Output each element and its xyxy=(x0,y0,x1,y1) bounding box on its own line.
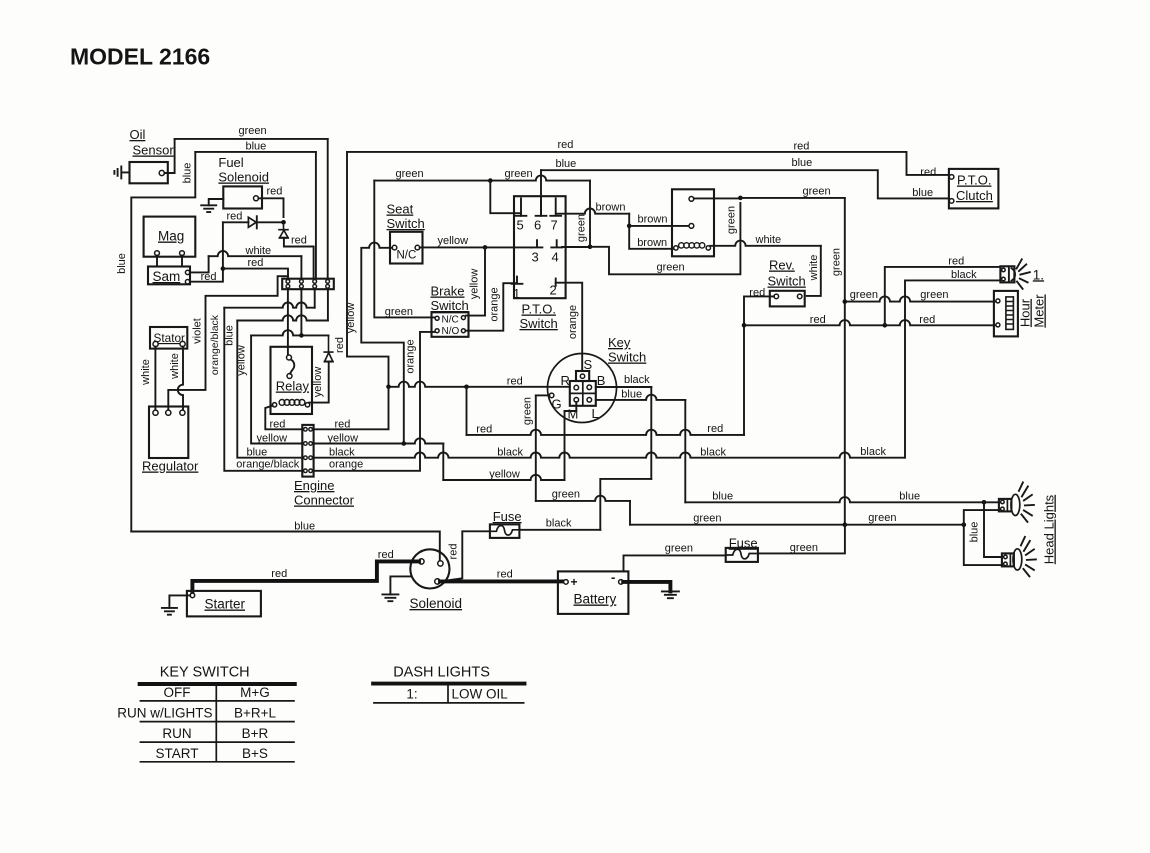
wire orange brake N/O right to PTO pin1 xyxy=(465,283,516,331)
wire M terminal drop to red bus and yellow riser xyxy=(564,411,566,480)
svg-text:B+R+L: B+R+L xyxy=(234,706,277,721)
svg-text:orange: orange xyxy=(567,305,579,339)
svg-text:Rev.: Rev. xyxy=(769,258,795,273)
Regulator pins xyxy=(153,410,158,415)
wire blue drop to headlight 2 xyxy=(984,502,1002,557)
svg-text:blue: blue xyxy=(556,158,577,170)
svg-text:brown: brown xyxy=(637,237,667,249)
wire orange/black: strip pin3 to engine connector xyxy=(314,289,316,308)
dash lamp bulb xyxy=(1009,268,1015,281)
svg-text:3: 3 xyxy=(532,250,539,265)
svg-text:black: black xyxy=(860,446,886,458)
svg-text:green: green xyxy=(868,512,896,524)
battery box xyxy=(558,571,629,614)
wire blue: strip pin4 to engine connector xyxy=(327,289,329,320)
svg-text:green: green xyxy=(726,206,738,234)
svg-text:green: green xyxy=(657,262,685,274)
svg-text:Switch: Switch xyxy=(387,216,425,231)
solenoid ground xyxy=(390,576,410,594)
starter pin xyxy=(190,593,195,598)
svg-text:red: red xyxy=(248,257,264,269)
svg-text:brown: brown xyxy=(596,202,626,214)
wire red vertical to key switch area xyxy=(347,152,389,387)
wire white stator left to regulator xyxy=(154,347,156,410)
wire green to hour meter (humps) xyxy=(845,296,998,301)
svg-text:Hour: Hour xyxy=(1018,298,1033,327)
interlock module coil xyxy=(679,243,684,248)
svg-text:green: green xyxy=(239,125,267,137)
interlock module top pin xyxy=(689,197,694,202)
PTO switch pin 2 xyxy=(555,279,557,286)
svg-text:7: 7 xyxy=(551,218,558,233)
svg-text:Seat: Seat xyxy=(387,202,414,217)
wire black thick battery to ground xyxy=(623,582,670,592)
svg-text:N/O: N/O xyxy=(442,326,460,337)
svg-text:N/C: N/C xyxy=(442,315,459,326)
wire module top pin to green junction xyxy=(694,197,741,199)
dash lamp pins xyxy=(1002,268,1006,272)
svg-text:6: 6 xyxy=(534,218,541,233)
junction yellow / brake drop xyxy=(483,245,488,250)
svg-text:white: white xyxy=(808,255,820,282)
svg-text:Switch: Switch xyxy=(431,298,469,313)
svg-text:red: red xyxy=(201,271,217,283)
svg-text:Fuel: Fuel xyxy=(218,155,243,170)
PTO switch pin 4 xyxy=(551,240,562,247)
dash lights table divider xyxy=(447,684,449,703)
starter box xyxy=(187,591,261,617)
wire red diode feed xyxy=(223,221,249,223)
svg-text:blue: blue xyxy=(224,325,236,346)
svg-text:RUN: RUN xyxy=(162,726,191,741)
relay box xyxy=(271,347,313,414)
wire yellow drop to brake N/C xyxy=(466,247,485,315)
wire brown PTO pin7 to module (hump over green) xyxy=(556,208,629,213)
fuse 1 element xyxy=(490,526,520,536)
svg-text:red: red xyxy=(270,418,286,430)
brake switch box xyxy=(432,312,469,337)
svg-text:KEY SWITCH: KEY SWITCH xyxy=(160,665,250,681)
wire green mid bus xyxy=(374,175,590,180)
connector strip pin 4 xyxy=(326,280,330,284)
svg-text:Brake: Brake xyxy=(431,284,465,299)
key switch table rules xyxy=(140,682,295,686)
headlight 1 connector divider xyxy=(1006,499,1008,512)
wire violet connector pin1 to regulator xyxy=(168,276,288,410)
svg-text:red: red xyxy=(334,337,346,353)
PTO switch box xyxy=(514,196,566,298)
svg-text:red: red xyxy=(476,423,492,435)
svg-text:black: black xyxy=(624,374,650,386)
PTO switch pin 1 xyxy=(512,277,523,284)
dash lamp rays xyxy=(1017,259,1030,289)
svg-text:black: black xyxy=(951,269,977,281)
fuel solenoid pin xyxy=(254,196,259,201)
headlight 2 connector divider xyxy=(1009,553,1011,566)
svg-text:Switch: Switch xyxy=(520,316,558,331)
junction green module node xyxy=(738,196,743,201)
wire red diode D2 to connector pin3 xyxy=(284,238,314,279)
wire red solenoid to fuse xyxy=(442,531,490,581)
svg-text:5: 5 xyxy=(517,218,524,233)
PTO switch pin 6 xyxy=(536,201,547,216)
svg-text:yellow: yellow xyxy=(438,235,469,247)
engine connector pin pair 2 xyxy=(304,442,308,446)
svg-text:1:: 1: xyxy=(406,687,417,702)
junction blue headlight node xyxy=(982,500,987,505)
wire black bus engine connector to lamp riser (humps) xyxy=(314,452,905,457)
relay contacts xyxy=(287,355,292,360)
svg-text:Mag: Mag xyxy=(158,229,184,244)
wire yellow riser from engine connector xyxy=(404,438,444,443)
svg-text:OFF: OFF xyxy=(164,685,191,700)
svg-text:S: S xyxy=(584,357,593,372)
fuel solenoid ground xyxy=(209,199,224,205)
svg-text:yellow: yellow xyxy=(312,367,324,398)
wire yellow segment to M drop (hump over green) xyxy=(443,475,564,480)
svg-text:B+S: B+S xyxy=(242,746,268,761)
wire green battery to fuse 2 xyxy=(624,555,726,571)
headlight 2 rays xyxy=(1021,537,1036,577)
headlight 2 connector xyxy=(1002,553,1014,566)
svg-text:blue: blue xyxy=(247,446,268,458)
oil sensor box xyxy=(130,162,168,183)
svg-text:orange: orange xyxy=(488,287,500,321)
Stator pins xyxy=(153,341,158,346)
svg-text:+: + xyxy=(571,575,578,589)
svg-text:Switch: Switch xyxy=(608,350,646,365)
svg-text:yellow: yellow xyxy=(236,345,248,376)
solenoid pins xyxy=(419,559,424,564)
svg-text:red: red xyxy=(558,139,574,151)
connector strip box xyxy=(282,279,334,290)
svg-text:MODEL 2166: MODEL 2166 xyxy=(70,44,210,70)
wire white module to rev switch (hump over green) xyxy=(711,241,821,246)
svg-text:1.: 1. xyxy=(1033,267,1044,282)
svg-text:red: red xyxy=(507,375,523,387)
fuse 2 element xyxy=(726,549,757,559)
wire green G to headlight bus xyxy=(536,496,630,501)
wire strip pin1 to relay contact xyxy=(287,289,289,355)
svg-text:red: red xyxy=(291,235,307,247)
hour meter box xyxy=(994,291,1018,337)
PTO clutch pins xyxy=(949,175,954,180)
key switch G pin xyxy=(549,393,554,398)
hour meter register xyxy=(1006,297,1014,330)
Mag pins xyxy=(155,251,160,256)
wire blue top (to connector pin3) xyxy=(195,151,316,153)
svg-text:blue: blue xyxy=(712,491,733,503)
svg-text:brown: brown xyxy=(638,213,668,225)
brake switch pins xyxy=(435,316,439,320)
PTO clutch box xyxy=(949,169,999,209)
junction red riser xyxy=(221,266,226,271)
svg-text:Head Lights: Head Lights xyxy=(1042,494,1057,564)
engine connector pin pair 3 xyxy=(304,456,308,460)
wire brown branch to module pin xyxy=(629,225,689,227)
Sam box xyxy=(148,267,190,285)
wire red to key switch R (humps over yellow+orange) xyxy=(389,382,570,387)
wire green PTO pin4 to junction xyxy=(562,246,590,248)
wire blue top bus xyxy=(541,170,949,198)
key switch circle xyxy=(548,354,617,423)
svg-text:P.T.O.: P.T.O. xyxy=(522,302,556,317)
svg-text:green: green xyxy=(505,168,533,180)
svg-text:blue: blue xyxy=(246,141,267,153)
wire blue left drop xyxy=(131,152,195,532)
svg-text:green: green xyxy=(385,306,413,318)
key switch S terminal box xyxy=(576,371,589,381)
Mag box xyxy=(144,217,196,257)
starter ground xyxy=(169,595,190,608)
svg-text:yellow: yellow xyxy=(489,468,520,480)
wire red to hour meter (humps over greens) xyxy=(744,320,885,325)
key switch table divider xyxy=(215,684,217,762)
interlock module box xyxy=(672,189,714,256)
svg-text:red: red xyxy=(448,544,460,560)
oil sensor ground terminal xyxy=(114,166,129,178)
fuse 2 box xyxy=(726,548,758,562)
svg-text:Switch: Switch xyxy=(768,274,806,289)
svg-text:green: green xyxy=(920,289,948,301)
junction red diode node xyxy=(281,220,286,225)
seat switch pins xyxy=(392,245,397,250)
svg-text:black: black xyxy=(700,447,726,459)
svg-text:LOW OIL: LOW OIL xyxy=(452,687,509,702)
svg-text:Fuse: Fuse xyxy=(493,509,522,524)
wire green bus to headlights xyxy=(630,524,964,526)
dash lamp 1 box xyxy=(1000,266,1014,282)
wire black dash lamp to bottom black bus xyxy=(905,280,1000,457)
svg-text:green: green xyxy=(693,512,721,524)
svg-text:2: 2 xyxy=(550,283,557,298)
oil sensor pin xyxy=(159,170,164,175)
svg-text:Sam: Sam xyxy=(153,269,181,284)
wire oil sensor to green bus xyxy=(164,139,174,173)
svg-text:4: 4 xyxy=(552,250,559,265)
wire yellow drop to engine connector xyxy=(251,335,302,443)
svg-text:yellow: yellow xyxy=(469,269,481,300)
junction green bus / pto pin5 drop xyxy=(488,178,493,183)
svg-text:N/C: N/C xyxy=(397,250,417,262)
svg-text:green: green xyxy=(552,488,580,500)
PTO switch pin 3 xyxy=(532,240,543,247)
connector strip pin 3 xyxy=(313,280,317,284)
svg-text:violet: violet xyxy=(191,318,203,344)
headlight 2 lens xyxy=(1013,549,1022,570)
wire blue bus to headlights xyxy=(685,497,984,502)
junction green pin4 node xyxy=(588,245,593,250)
PTO switch pin 5 xyxy=(516,198,527,215)
svg-text:white: white xyxy=(140,359,152,386)
svg-text:1: 1 xyxy=(513,286,520,301)
engine connector pin pair 4 xyxy=(304,469,308,473)
junction rev red / hour meter red xyxy=(742,323,747,328)
headlight 1 connector xyxy=(999,499,1012,512)
svg-text:green: green xyxy=(522,397,534,425)
wire red top bus xyxy=(347,152,949,175)
wire green bus to PTO pin5 xyxy=(490,181,521,216)
relay diode D3 xyxy=(323,335,333,361)
svg-text:green: green xyxy=(665,543,693,555)
relay coil xyxy=(279,400,285,406)
svg-text:blue: blue xyxy=(912,187,933,199)
wire red lower bus (humps) xyxy=(467,430,745,435)
wire white Sam to connector pin2 xyxy=(190,256,209,272)
fuse 1 box xyxy=(490,524,520,538)
junction strip pin2 drop on yellow bus xyxy=(299,333,304,338)
rev switch box xyxy=(770,291,805,307)
wire blue bottom bus to solenoid xyxy=(131,532,440,561)
junction green hour meter branch xyxy=(843,299,848,304)
svg-text:DASH LIGHTS: DASH LIGHTS xyxy=(393,665,490,681)
svg-text:green: green xyxy=(396,168,424,180)
wire yellow seat switch to PTO pin3 xyxy=(420,246,532,248)
connector strip pin 1 xyxy=(286,280,290,284)
svg-text:R: R xyxy=(561,373,570,388)
fuel solenoid box xyxy=(223,186,262,208)
wire green module to right vertical xyxy=(740,197,844,199)
svg-text:black: black xyxy=(329,447,355,459)
svg-text:orange: orange xyxy=(404,339,416,373)
wire red relay coil to engine connector xyxy=(265,406,302,430)
svg-text:blue: blue xyxy=(899,491,920,503)
svg-text:Meter: Meter xyxy=(1032,294,1047,328)
seat switch box xyxy=(390,232,423,264)
wire green fuse 2 to green bus riser xyxy=(758,525,845,554)
PTO switch pin 7 xyxy=(550,198,561,215)
wire black fuse to key switch B drop xyxy=(519,529,600,531)
svg-text:green: green xyxy=(850,289,878,301)
svg-text:blue: blue xyxy=(792,157,813,169)
wire white stator right to regulator (hump over violet) xyxy=(178,347,183,410)
battery ground xyxy=(662,591,679,598)
junction green bus nodes xyxy=(843,522,848,527)
wire blue key switch L to headlights xyxy=(596,395,686,400)
wire red thick starter to solenoid xyxy=(192,561,419,595)
svg-text:yellow: yellow xyxy=(345,303,357,334)
svg-text:green: green xyxy=(830,248,842,276)
svg-text:yellow: yellow xyxy=(328,432,359,444)
wire yellow bus line to relay diode xyxy=(251,330,328,335)
hour meter pins xyxy=(996,299,1000,303)
wire blue to headlight 1 xyxy=(984,501,999,503)
svg-text:Solenoid: Solenoid xyxy=(410,596,463,611)
wire strip pin2 drop xyxy=(300,289,302,335)
wire red rev switch to red bus vertical xyxy=(744,296,774,435)
wire green branch to headlight 1 xyxy=(964,510,999,525)
wire orange brake N/O left to engine connector orange xyxy=(314,332,436,471)
svg-text:red: red xyxy=(919,314,935,326)
wire green to brake switch N/C xyxy=(374,181,434,318)
headlight 1 rays xyxy=(1019,482,1034,522)
svg-text:yellow: yellow xyxy=(257,432,288,444)
wire red engine connector row1 riser xyxy=(314,387,389,430)
diode D1 xyxy=(248,217,256,227)
Stator box xyxy=(150,327,187,349)
wire red to dash lamp 1 xyxy=(885,267,1001,325)
svg-text:red: red xyxy=(267,186,283,198)
wire red Sam junction to connector pin1 xyxy=(223,269,288,279)
svg-text:black: black xyxy=(497,446,523,458)
wire red fuel solenoid to diode junction xyxy=(258,198,283,217)
key switch block pins xyxy=(574,385,579,390)
wire green right vertical (hour meter / headlights feed) xyxy=(844,198,846,525)
wire red drop to lower red bus xyxy=(466,387,468,435)
wire yellow engine connector row2 xyxy=(314,443,404,445)
engine connector pin pair 1 xyxy=(304,428,308,432)
wire red thick solenoid to battery xyxy=(440,579,564,583)
svg-text:M+G: M+G xyxy=(240,685,270,700)
svg-text:red: red xyxy=(948,255,964,267)
wire green top (oil sensor to connector pin4) xyxy=(175,138,328,140)
svg-text:L: L xyxy=(592,406,599,421)
wire yellow seat switch left drop (hump over green) xyxy=(361,243,404,444)
Sam pins xyxy=(185,270,189,274)
svg-text:red: red xyxy=(378,549,394,561)
wire black key switch B to fuse drop xyxy=(596,386,652,388)
svg-text:blue: blue xyxy=(182,163,194,184)
junction red R feed xyxy=(386,385,391,390)
svg-text:orange/black: orange/black xyxy=(209,314,221,375)
svg-text:G: G xyxy=(552,397,562,412)
relay switch arm xyxy=(290,360,294,374)
svg-text:Starter: Starter xyxy=(205,597,246,612)
svg-text:Oil: Oil xyxy=(130,127,146,142)
wire yellow diode to relay coil xyxy=(309,362,328,403)
svg-text:Engine: Engine xyxy=(294,478,334,493)
battery pins xyxy=(564,580,569,585)
svg-text:blue: blue xyxy=(116,253,128,274)
svg-text:Battery: Battery xyxy=(574,592,617,607)
svg-text:P.T.O.: P.T.O. xyxy=(957,173,991,188)
wire green key switch G drop xyxy=(536,394,550,396)
wire diode D1 to junction xyxy=(257,221,284,223)
interlock module middle pin xyxy=(689,224,694,229)
svg-text:red: red xyxy=(794,141,810,153)
svg-text:white: white xyxy=(169,353,181,380)
svg-text:Key: Key xyxy=(608,335,631,350)
svg-text:red: red xyxy=(920,167,936,179)
svg-text:red: red xyxy=(810,314,826,326)
svg-text:RUN w/LIGHTS: RUN w/LIGHTS xyxy=(117,706,212,721)
svg-text:white: white xyxy=(755,234,782,246)
svg-text:Sensor: Sensor xyxy=(133,143,175,158)
svg-text:START: START xyxy=(155,746,198,761)
svg-text:red: red xyxy=(497,569,513,581)
wire blue PTO pin6 drop xyxy=(540,170,542,216)
svg-text:B+R: B+R xyxy=(242,726,269,741)
svg-text:Regulator: Regulator xyxy=(142,459,199,474)
rev switch pins xyxy=(774,294,779,299)
diode D2 vertical xyxy=(278,222,289,237)
svg-text:green: green xyxy=(575,214,587,242)
svg-text:blue: blue xyxy=(621,388,642,400)
headlight 1 lens xyxy=(1011,494,1020,515)
svg-text:orange/black: orange/black xyxy=(236,459,299,471)
svg-text:blue: blue xyxy=(968,522,980,543)
wire green jog to interlock module xyxy=(590,203,740,274)
svg-text:blue: blue xyxy=(294,520,315,532)
svg-text:orange: orange xyxy=(329,459,363,471)
engine connector box xyxy=(302,425,313,477)
junction brown branch xyxy=(627,224,632,229)
svg-text:Clutch: Clutch xyxy=(956,188,993,203)
svg-text:red: red xyxy=(227,210,243,222)
wire red Sam riser xyxy=(190,222,223,281)
wire green branch to headlight 2 xyxy=(964,525,1002,565)
junction yellow node xyxy=(402,441,407,446)
